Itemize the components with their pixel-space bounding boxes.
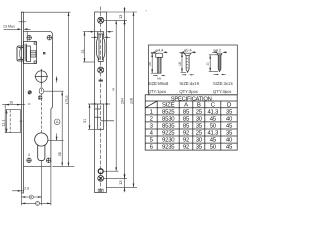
svg-text:50: 50 [210, 122, 217, 129]
screw 1 thread callout M5 [153, 75, 165, 80]
screw 3 labels [213, 81, 233, 94]
dim 25 deadbolt height [83, 104, 98, 129]
svg-text:2.5: 2.5 [24, 186, 29, 190]
svg-text:31: 31 [81, 49, 85, 53]
svg-text:10: 10 [27, 153, 31, 157]
latch housing [23, 42, 36, 64]
svg-text:45: 45 [210, 137, 217, 144]
fixing screw dark center [38, 95, 43, 100]
svg-text:9225: 9225 [162, 130, 175, 137]
dim 2.5 plate bottom [12, 186, 29, 191]
svg-text:45: 45 [226, 144, 233, 151]
euro cylinder hole [35, 133, 48, 161]
svg-text:SIZE:3x13: SIZE:3x13 [213, 81, 233, 86]
ext lines bottom dims [22, 160, 51, 205]
svg-text:QTY:1pcs: QTY:1pcs [148, 89, 166, 94]
svg-text:20: 20 [148, 62, 152, 66]
small detail square in case [43, 52, 45, 54]
dim A vertical follower-cylinder [48, 77, 64, 141]
svg-text:35: 35 [196, 122, 203, 129]
dim 13 top [118, 7, 126, 26]
small round hole [98, 169, 103, 174]
dim 15 throw [2, 101, 25, 109]
screw 2 tip callout [182, 74, 194, 75]
svg-text:SIZE:4x19: SIZE:4x19 [179, 81, 199, 86]
svg-text:9235: 9235 [162, 144, 175, 151]
dark slot mark below mid hole [99, 80, 103, 82]
label 13 Max with leader [3, 25, 31, 31]
svg-text:45: 45 [210, 115, 217, 122]
svg-text:A: A [184, 101, 188, 108]
deadbolt width arrows [91, 103, 110, 105]
svg-text:QTY:3pcs: QTY:3pcs [179, 89, 197, 94]
screw 3 wood screw small [212, 48, 227, 71]
svg-text:35: 35 [58, 152, 62, 156]
svg-text:SIZE: SIZE [162, 101, 175, 108]
latch width arrows row1 [88, 31, 113, 33]
svg-text:8525: 8525 [162, 108, 175, 115]
latch width arrows row2 [91, 36, 110, 38]
screw 2 length dim 19 [178, 53, 186, 72]
dim B bottom (backset) [22, 195, 42, 199]
svg-text:228: 228 [129, 98, 133, 104]
dim 31 latch height [81, 32, 98, 62]
svg-text:SPECIFICATION: SPECIFICATION [171, 95, 212, 102]
screw cross bottom-right [46, 158, 51, 163]
svg-text:25: 25 [196, 108, 203, 115]
faceplate side view [19, 12, 27, 193]
top screw hole [98, 17, 104, 23]
dim 11.1 bolt height [2, 110, 8, 133]
table text [150, 95, 233, 150]
case inner wall line [26, 31, 28, 41]
dim 228 [129, 12, 134, 187]
small tick on case left [28, 103, 31, 105]
screw 1 labels [148, 81, 169, 94]
svg-text:11: 11 [206, 62, 210, 66]
screw 1 length dim 20 [148, 53, 157, 73]
svg-text:204: 204 [120, 98, 124, 104]
screw cross top-left [27, 35, 32, 40]
svg-text:SIZE:M5x8: SIZE:M5x8 [148, 81, 169, 86]
center dashed line left view [40, 84, 42, 133]
svg-text:9230: 9230 [162, 137, 175, 144]
spindle oval hole [39, 88, 63, 94]
svg-text:B: B [30, 195, 32, 199]
screw cross bottom-left [26, 158, 31, 163]
svg-text:40: 40 [226, 115, 233, 122]
svg-text:41.3: 41.3 [207, 130, 219, 137]
svg-text:31: 31 [83, 119, 87, 123]
svg-text:13: 13 [118, 15, 123, 19]
svg-text:50: 50 [210, 144, 217, 151]
svg-text:92: 92 [183, 130, 190, 137]
svg-text:B: B [197, 101, 201, 108]
ext line body bottom [53, 165, 75, 167]
svg-text:8530: 8530 [162, 115, 175, 122]
latch bolt head [17, 46, 23, 61]
svg-text:35: 35 [226, 130, 233, 137]
svg-text:30: 30 [196, 137, 203, 144]
deadbolt thrown rectangle [5, 110, 22, 133]
center line front view [100, 7, 102, 193]
stray dot [145, 10, 146, 11]
svg-text:85: 85 [183, 115, 190, 122]
screw 1 machine screw [151, 48, 167, 73]
deadbolt front view [95, 104, 115, 129]
svg-text:45: 45 [226, 122, 233, 129]
svg-text:M5: M5 [157, 76, 161, 80]
svg-text:φ5.4: φ5.4 [184, 48, 192, 52]
svg-text:40: 40 [226, 137, 233, 144]
svg-text:φ4.4: φ4.4 [156, 48, 164, 52]
svg-text:13 Max: 13 Max [3, 25, 15, 29]
svg-text:25: 25 [196, 130, 203, 137]
svg-text:35: 35 [226, 108, 233, 115]
svg-text:H: H [112, 88, 116, 91]
svg-text:35: 35 [196, 144, 203, 151]
dim C bottom [22, 201, 51, 205]
svg-text:85: 85 [183, 122, 190, 129]
parts box outline [149, 45, 238, 95]
dim 13 bottom [118, 174, 126, 193]
table frame [145, 95, 237, 150]
svg-text:QTY:3pcs: QTY:3pcs [213, 89, 231, 94]
faceplate front view [95, 12, 107, 193]
screw 2 wood screw [179, 48, 195, 72]
svg-text:8535: 8535 [162, 122, 175, 129]
bottom feet tabs [98, 189, 103, 192]
svg-text:175.6: 175.6 [65, 96, 69, 105]
lower screw hole [98, 175, 104, 181]
screw 2 labels [179, 81, 199, 94]
latch bolt front view [97, 32, 105, 62]
lock case outline [23, 31, 52, 166]
svg-text:30: 30 [196, 115, 203, 122]
dim 204 [120, 20, 125, 178]
screw 3 tip callout [214, 74, 226, 75]
dim 175.6 overall [24, 12, 71, 166]
dim 75 spindle to bottom [58, 91, 63, 166]
follower hub circle [35, 69, 48, 84]
fixing screw dark left [28, 90, 32, 94]
svg-text:11.1: 11.1 [2, 120, 6, 127]
svg-text:92: 92 [183, 144, 190, 151]
mid screw hole [98, 67, 104, 73]
svg-text:13: 13 [118, 180, 123, 184]
ext lines right of front view [104, 12, 138, 187]
svg-text:92: 92 [183, 137, 190, 144]
svg-text:15: 15 [9, 101, 13, 105]
svg-text:85: 85 [183, 108, 190, 115]
svg-text:41.3: 41.3 [207, 108, 219, 115]
screw 3 length dim 11 [206, 55, 219, 72]
svg-text:18: 18 [178, 62, 182, 66]
dim H [112, 20, 118, 171]
screw cross top-right [47, 35, 52, 40]
svg-text:φ4.2: φ4.2 [213, 48, 221, 52]
